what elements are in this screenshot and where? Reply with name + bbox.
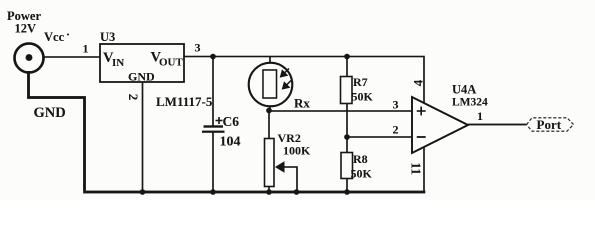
svg-text:100K: 100K <box>283 144 311 158</box>
svg-text:2: 2 <box>126 94 141 101</box>
svg-text:1: 1 <box>83 42 89 56</box>
svg-text:2: 2 <box>393 123 399 137</box>
svg-text:U3: U3 <box>100 30 115 44</box>
svg-text:3: 3 <box>393 98 399 112</box>
svg-text:50K: 50K <box>351 167 373 181</box>
svg-text:50K: 50K <box>352 90 374 104</box>
svg-text:12V: 12V <box>15 22 37 36</box>
svg-text:4: 4 <box>410 79 425 86</box>
svg-text:104: 104 <box>220 135 241 150</box>
svg-text:Vcc: Vcc <box>44 30 65 44</box>
svg-text:3: 3 <box>195 41 201 55</box>
svg-text:GND: GND <box>34 105 66 121</box>
svg-text:U4A: U4A <box>452 83 476 97</box>
svg-text:R7: R7 <box>353 75 368 89</box>
svg-text:OUT: OUT <box>159 57 184 69</box>
svg-text:11: 11 <box>408 162 423 175</box>
svg-text:IN: IN <box>112 57 124 69</box>
svg-text:GND: GND <box>128 70 155 84</box>
svg-text:Port: Port <box>537 117 562 132</box>
svg-text:1: 1 <box>477 109 483 123</box>
svg-text:LM324: LM324 <box>452 97 488 109</box>
svg-text:C6: C6 <box>223 114 240 129</box>
svg-text:R8: R8 <box>353 152 368 166</box>
svg-text:Rx: Rx <box>294 96 310 111</box>
svg-text:LM1117-5: LM1117-5 <box>156 94 213 109</box>
